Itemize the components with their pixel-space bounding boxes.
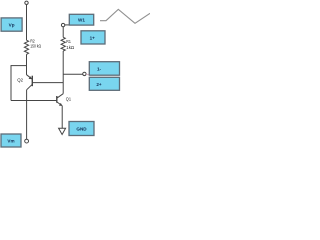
wire pink to scope xyxy=(86,73,89,75)
pin box Vm xyxy=(1,134,21,147)
svg-text:GND: GND xyxy=(76,127,87,132)
wire xyxy=(26,5,28,41)
wire xyxy=(10,65,12,100)
svg-text:Q1: Q1 xyxy=(66,96,72,101)
resistor R2 xyxy=(24,40,28,54)
svg-text:R1: R1 xyxy=(66,39,71,44)
wire xyxy=(26,54,28,75)
svg-text:Vp: Vp xyxy=(9,22,15,27)
svg-text:1-: 1- xyxy=(97,67,102,72)
svg-text:Vm: Vm xyxy=(7,139,14,144)
resistor R1 xyxy=(61,37,65,51)
node W1 terminal xyxy=(61,23,64,26)
svg-text:W1: W1 xyxy=(78,18,85,23)
pin box 1+ xyxy=(81,31,105,44)
wire Q2 base xyxy=(33,82,63,84)
svg-text:1kΩ: 1kΩ xyxy=(66,45,75,50)
svg-text:2+: 2+ xyxy=(96,82,102,87)
pin box Vp xyxy=(1,18,22,31)
svg-text:Q2: Q2 xyxy=(17,78,23,83)
node Vp terminal xyxy=(25,1,28,4)
node Vm terminal xyxy=(25,139,29,143)
wire Q1 emitter down xyxy=(61,106,63,129)
transistor Q2 xyxy=(27,75,33,90)
wire xyxy=(62,51,64,94)
wire xyxy=(11,65,27,67)
pin box GND xyxy=(69,122,94,136)
pin box W1 xyxy=(69,14,93,25)
waveform icon xyxy=(100,9,150,23)
node output terminal xyxy=(83,72,86,75)
wire to output terminal xyxy=(63,73,83,75)
wire xyxy=(62,27,64,37)
svg-text:1+: 1+ xyxy=(90,35,96,40)
pin box 2+ xyxy=(89,77,119,90)
transistor Q1 xyxy=(57,94,63,106)
svg-text:150 kΩ: 150 kΩ xyxy=(30,43,41,48)
ground xyxy=(59,128,66,134)
wire Q1 base xyxy=(11,100,56,102)
pin box 1- xyxy=(89,62,119,75)
wire Q2 collector down xyxy=(26,90,28,139)
wire W1 to terminal xyxy=(65,24,70,26)
